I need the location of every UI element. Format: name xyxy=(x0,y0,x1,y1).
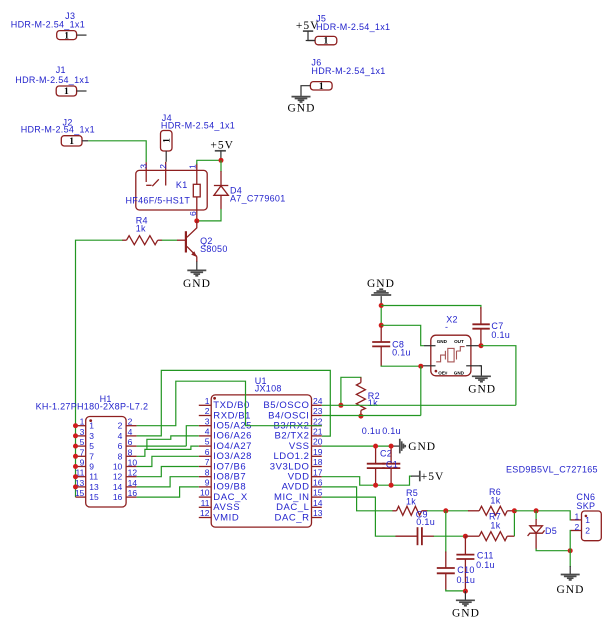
node D5 top junction xyxy=(534,508,539,513)
svg-text:OE#: OE# xyxy=(438,370,448,375)
svg-text:1k: 1k xyxy=(136,224,146,234)
wire H1.4 over-top to U1 B2/TX2 xyxy=(137,370,331,436)
svg-text:5: 5 xyxy=(89,441,94,451)
ground GND (top, above C8, inverted) xyxy=(367,278,395,304)
svg-text:8: 8 xyxy=(128,447,133,457)
node H1 pin 3 bus junction xyxy=(73,433,78,438)
wire GND drop (CN6) xyxy=(569,551,571,567)
svg-text:13: 13 xyxy=(313,508,323,518)
connector CN6 SKP xyxy=(571,492,602,541)
svg-text:KH-1.27PH180-2X8P-L7.2: KH-1.27PH180-2X8P-L7.2 xyxy=(36,402,149,412)
svg-text:-: - xyxy=(445,322,448,332)
svg-text:3: 3 xyxy=(89,431,94,441)
header J2 xyxy=(21,117,95,147)
svg-text:0.1u: 0.1u xyxy=(392,347,411,357)
K1 pin 6 xyxy=(196,197,198,221)
wire H1.16 to U1 IO9/B8 xyxy=(137,487,199,497)
node H1 pin 11 bus junction xyxy=(73,474,78,479)
wire C9 to R7 row xyxy=(434,535,467,537)
X2 pin GND (top-left) xyxy=(424,345,436,347)
wire D4 bottom to Q2 collector node xyxy=(197,209,221,221)
wire X2 OUT loop to B5/OSCO xyxy=(481,346,516,406)
H1 pin 11 xyxy=(76,476,86,478)
svg-text:0.1u: 0.1u xyxy=(457,575,476,585)
svg-text:2: 2 xyxy=(118,421,123,431)
wire GND to C7 top xyxy=(381,306,481,310)
wire R7 right up to R6 right xyxy=(513,511,515,536)
power +5V (J5) xyxy=(296,20,320,41)
svg-text:1k: 1k xyxy=(368,398,378,408)
K1 coil xyxy=(193,184,200,197)
svg-text:2: 2 xyxy=(158,164,168,169)
U1 pin 10 DAC_X xyxy=(199,496,211,498)
U1 pin 2 RXD/B1 xyxy=(199,415,211,417)
CN6 pin 1 xyxy=(571,519,582,521)
capacitor C9 0.1u xyxy=(396,510,436,546)
K1 switch blade xyxy=(152,179,159,186)
svg-text:6: 6 xyxy=(128,437,133,447)
node X2 OUT junction xyxy=(479,343,484,348)
wire R4 to Q2 base xyxy=(162,239,178,241)
node H1 pin 1 bus junction xyxy=(73,423,78,428)
svg-text:0.1u: 0.1u xyxy=(491,330,510,340)
svg-text:+5V: +5V xyxy=(210,140,234,152)
H1 pin 14 xyxy=(126,486,137,488)
svg-text:C1: C1 xyxy=(386,460,398,470)
power +5V (VDD) xyxy=(411,471,444,484)
K1 pin 1 xyxy=(196,164,198,185)
node R2 bottom / B4 wire junction xyxy=(358,414,363,419)
svg-text:9: 9 xyxy=(80,458,85,468)
U1 pin 24 B5/OSCO xyxy=(312,404,322,406)
H1 pin 1 xyxy=(76,425,86,427)
wire VDD to +5V rail xyxy=(322,476,412,485)
svg-text:12: 12 xyxy=(113,472,123,482)
svg-text:J1: J1 xyxy=(56,65,66,75)
resistor R6 1k xyxy=(468,487,514,515)
svg-text:0.1u: 0.1u xyxy=(382,426,401,436)
U1 pin 16 AVDD xyxy=(312,486,322,488)
svg-text:ESD9B5VL_C727165: ESD9B5VL_C727165 xyxy=(506,464,598,474)
node +5V/D4 junction xyxy=(219,158,224,163)
connector H1 KH-1.27PH180-2X8P-L7.2 xyxy=(36,394,149,507)
H1 pin 10 xyxy=(126,466,137,468)
H1 pin 13 xyxy=(76,486,86,488)
svg-text:S8050: S8050 xyxy=(200,244,228,254)
wire C10 bottom to GND node xyxy=(446,589,466,591)
H1 pin 9 xyxy=(76,466,86,468)
svg-text:GND: GND xyxy=(452,608,480,620)
svg-text:VMID: VMID xyxy=(213,512,239,523)
node GND/C8 junction xyxy=(379,323,384,328)
svg-text:18: 18 xyxy=(313,457,323,467)
svg-text:+5V: +5V xyxy=(296,20,320,32)
svg-text:1: 1 xyxy=(319,82,324,92)
svg-text:23: 23 xyxy=(313,406,323,416)
svg-text:24: 24 xyxy=(313,396,323,406)
svg-text:14: 14 xyxy=(128,478,138,488)
svg-text:A7_C779601: A7_C779601 xyxy=(230,194,286,204)
svg-text:OUT: OUT xyxy=(454,339,464,344)
svg-text:HDR-M-2.54_1x1: HDR-M-2.54_1x1 xyxy=(316,22,390,32)
H1 pin 15 xyxy=(76,496,86,498)
U1 pin 1 TXD/B0 xyxy=(199,404,211,406)
node C1 bottom junction xyxy=(389,483,394,488)
ground GND (X2) xyxy=(468,366,496,396)
svg-text:2: 2 xyxy=(585,525,590,535)
capacitor C10 0.1u xyxy=(437,552,475,591)
diode D5 (TVS) xyxy=(528,511,558,550)
node GND/C7 junction xyxy=(379,303,384,308)
U1 pin 12 VMID xyxy=(199,517,211,519)
svg-text:2: 2 xyxy=(128,417,133,427)
capacitor C1 0.1u xyxy=(382,426,401,485)
U1 pin 3 IO5/A25 xyxy=(199,425,211,427)
U1 pin 8 IO8/B7 xyxy=(199,476,211,478)
wire VSS row to GND xyxy=(322,445,393,447)
svg-text:1k: 1k xyxy=(406,497,416,507)
svg-text:+5V: +5V xyxy=(421,471,445,483)
node K1.6/D4/Q2 junction xyxy=(194,218,199,223)
svg-text:1: 1 xyxy=(324,37,329,47)
node X2 OE#/C8 junction xyxy=(418,364,423,369)
svg-text:HDR-M-2.54_1x1: HDR-M-2.54_1x1 xyxy=(161,120,235,130)
node R5/C10 junction xyxy=(443,508,448,513)
U1 pin 14 DAC_L xyxy=(312,506,322,508)
H1 pin 12 xyxy=(126,476,137,478)
svg-text:6: 6 xyxy=(118,441,123,451)
svg-text:10: 10 xyxy=(113,462,123,472)
ground GND (VSS, sideways) xyxy=(393,439,437,454)
svg-text:GND: GND xyxy=(367,278,395,290)
header J5 xyxy=(306,13,391,46)
wire B5/OSCO row xyxy=(322,404,516,406)
svg-text:17: 17 xyxy=(313,467,323,477)
wire branch to U1 IO6/A26 xyxy=(147,436,199,450)
svg-text:D5: D5 xyxy=(545,526,557,536)
svg-text:8: 8 xyxy=(205,467,210,477)
node H1 pin 5 bus junction xyxy=(73,444,78,449)
svg-text:16: 16 xyxy=(313,478,323,488)
resistor R5 1k xyxy=(393,488,428,515)
header J4 xyxy=(161,113,236,162)
X2 pin OE# (bottom-left) xyxy=(422,365,436,367)
wire H1 bus to R4 xyxy=(76,240,123,497)
svg-text:0.1u: 0.1u xyxy=(416,517,435,527)
node R6/R7 junction xyxy=(512,508,517,513)
svg-text:12: 12 xyxy=(128,468,138,478)
node C1 top junction xyxy=(389,444,394,449)
svg-text:19: 19 xyxy=(313,447,323,457)
svg-text:14: 14 xyxy=(113,482,123,492)
svg-text:6: 6 xyxy=(188,211,198,216)
K1 pin 2 xyxy=(165,162,167,186)
capacitor C8 0.1u xyxy=(372,327,411,367)
svg-text:13: 13 xyxy=(89,482,99,492)
K1 pin 3 xyxy=(145,162,147,182)
header J1 xyxy=(15,65,89,97)
svg-text:1: 1 xyxy=(188,164,198,169)
svg-text:11: 11 xyxy=(201,498,210,508)
resistor R2 1k xyxy=(341,377,380,416)
ground GND (Q2) xyxy=(183,262,211,290)
X2 crystal glyph xyxy=(436,347,464,362)
svg-text:GND: GND xyxy=(454,370,465,375)
wire B4/OSCI row xyxy=(322,415,421,417)
svg-text:4: 4 xyxy=(118,431,123,441)
svg-text:GND: GND xyxy=(468,384,496,396)
node C10/C11/GND junction xyxy=(463,589,468,594)
wire H1.6 row xyxy=(137,445,187,447)
U1 pin 17 VDD xyxy=(312,476,322,478)
svg-text:3: 3 xyxy=(139,164,149,169)
svg-text:16: 16 xyxy=(113,492,123,502)
resistor R4 1k xyxy=(122,216,162,245)
wire H1.2 over-top to U1 B3/RX2 xyxy=(137,381,322,426)
node H1 pin 7 bus junction xyxy=(73,454,78,459)
svg-text:4: 4 xyxy=(205,427,210,437)
node R2 top / B5 wire junction xyxy=(338,403,343,408)
svg-text:7: 7 xyxy=(80,447,85,457)
svg-text:GND: GND xyxy=(288,103,316,115)
diode D4 A7_C779601 xyxy=(214,171,286,209)
svg-text:GND: GND xyxy=(408,441,436,453)
wire +5V to K1 pin1 and D4 xyxy=(197,158,221,165)
H1 pin 4 xyxy=(126,435,137,437)
transistor Q2 S8050 xyxy=(177,221,228,263)
svg-text:22: 22 xyxy=(313,416,323,426)
U1 pin 7 IO7/B6 xyxy=(199,466,211,468)
svg-text:1: 1 xyxy=(205,396,210,406)
svg-text:1: 1 xyxy=(80,417,85,427)
svg-text:HDR-M-2.54_1x1: HDR-M-2.54_1x1 xyxy=(21,125,95,135)
svg-text:1: 1 xyxy=(64,87,69,97)
wire AVDD to R5 xyxy=(322,487,393,511)
node CN6.2/D5/GND junction xyxy=(568,548,573,553)
svg-text:14: 14 xyxy=(313,498,323,508)
IC U1 JX108 xyxy=(199,376,323,527)
node C2 top junction xyxy=(373,444,378,449)
oscillator X2 xyxy=(422,315,482,376)
H1 pin 2 xyxy=(126,425,137,427)
svg-text:GND: GND xyxy=(183,278,211,290)
svg-text:12: 12 xyxy=(200,508,210,518)
svg-text:9: 9 xyxy=(89,462,94,472)
wire D4 top lead xyxy=(220,160,222,172)
wire C10 drop xyxy=(445,511,447,553)
svg-text:10: 10 xyxy=(128,458,138,468)
U1 pin 6 IO3/A28 xyxy=(199,455,211,457)
U1 pin 21 B2/TX2 xyxy=(312,435,322,437)
svg-text:9: 9 xyxy=(205,478,210,488)
wire H1.12 to U1 IO7/B6 xyxy=(137,467,199,477)
H1 pin 16 xyxy=(126,496,137,498)
U1 pin 4 IO6/A26 xyxy=(199,435,211,437)
svg-text:1k: 1k xyxy=(490,521,500,531)
svg-text:1: 1 xyxy=(69,137,74,147)
svg-text:1: 1 xyxy=(64,31,69,41)
svg-text:7: 7 xyxy=(89,451,94,461)
relay K1 HF46F/5-HS1T xyxy=(126,162,208,221)
node C9/C11/R7 junction xyxy=(463,534,468,539)
U1 pin 22 B3/RX2 xyxy=(312,425,322,427)
svg-text:JX108: JX108 xyxy=(255,384,282,394)
svg-text:3: 3 xyxy=(80,427,85,437)
U1 pin 9 IO9/B8 xyxy=(199,486,211,488)
wire J2 to K1 pin3 xyxy=(88,141,146,162)
wire CN6 pin2 drop xyxy=(570,531,571,551)
X2 pin OUT (top-right) xyxy=(466,345,479,347)
svg-text:5: 5 xyxy=(205,437,210,447)
svg-text:GND: GND xyxy=(437,339,448,344)
svg-text:2: 2 xyxy=(205,406,210,416)
svg-text:4: 4 xyxy=(128,427,133,437)
U1 pin 5 IO4/A27 xyxy=(199,445,211,447)
ground GND (C10/C11) xyxy=(452,591,480,619)
svg-text:0.1u: 0.1u xyxy=(362,426,381,436)
wire OE# node down to B4/OSCI xyxy=(420,366,422,415)
power +5V (K1/D4) xyxy=(210,140,234,159)
ground GND (J6) xyxy=(288,97,316,115)
U1 pin 20 VSS xyxy=(312,445,322,447)
svg-text:5: 5 xyxy=(80,437,85,447)
svg-text:3: 3 xyxy=(205,416,210,426)
X2 pin GND (bottom-right) xyxy=(466,365,481,367)
H1 pin 6 xyxy=(126,445,137,447)
svg-text:HDR-M-2.54_1x1: HDR-M-2.54_1x1 xyxy=(11,20,85,30)
svg-text:0.1u: 0.1u xyxy=(476,560,495,570)
svg-text:15: 15 xyxy=(313,488,323,498)
U1 pin 18 3V3LDO xyxy=(312,466,322,468)
svg-text:11: 11 xyxy=(89,472,98,482)
svg-text:C11: C11 xyxy=(477,550,494,560)
svg-text:10: 10 xyxy=(200,488,210,498)
wire U1 IO5/A25 drop xyxy=(186,426,199,446)
wire GND node to X2 GND pin xyxy=(381,325,424,345)
svg-text:HDR-M-2.54_1x1: HDR-M-2.54_1x1 xyxy=(311,66,385,76)
H1 pin 3 xyxy=(76,435,86,437)
svg-text:2: 2 xyxy=(575,522,580,532)
wire D5 bottom to GND node xyxy=(536,549,570,551)
ground GND (CN6) xyxy=(557,566,585,596)
svg-text:SKP: SKP xyxy=(576,501,595,511)
capacitor C7 0.1u xyxy=(472,307,510,346)
svg-text:GND: GND xyxy=(557,584,585,596)
svg-text:6: 6 xyxy=(205,447,210,457)
svg-text:15: 15 xyxy=(89,492,99,502)
capacitor C11 0.1u xyxy=(456,536,494,591)
svg-text:1k: 1k xyxy=(490,495,500,505)
svg-text:21: 21 xyxy=(313,427,323,437)
svg-text:1: 1 xyxy=(585,515,590,525)
wire C8 bottom to X2 OE# xyxy=(381,365,421,368)
svg-text:15: 15 xyxy=(75,488,85,498)
header J3 xyxy=(11,11,87,42)
wire H1.10 to U1 IO3/A28 xyxy=(137,456,199,466)
U1 pin 23 B4/OSCI xyxy=(312,415,322,417)
svg-text:DAC_R: DAC_R xyxy=(275,512,310,523)
node H1 pin 13 bus junction xyxy=(73,484,78,489)
H1 pin 5 xyxy=(76,445,86,447)
wire H1.14 to U1 IO8/B7 xyxy=(137,477,199,487)
CN6 pin 2 xyxy=(571,530,582,532)
capacitor C2 0.1u xyxy=(362,426,392,485)
svg-text:20: 20 xyxy=(313,437,323,447)
node C2 bottom junction xyxy=(373,483,378,488)
node H1 pin 9 bus junction xyxy=(73,464,78,469)
svg-text:HDR-M-2.54_1x1: HDR-M-2.54_1x1 xyxy=(15,75,89,85)
U1 pin 13 DAC_R xyxy=(312,517,322,519)
svg-text:7: 7 xyxy=(205,457,210,467)
wire MIC_IN to C9 xyxy=(322,497,396,536)
header J6 xyxy=(301,58,386,96)
svg-text:1: 1 xyxy=(89,421,94,431)
wire R5 to R6 row xyxy=(427,510,469,512)
wire R6 row to CN6 pin1 xyxy=(514,511,571,520)
svg-text:C2: C2 xyxy=(380,449,392,459)
svg-text:1: 1 xyxy=(575,511,580,521)
svg-text:K1: K1 xyxy=(176,180,188,190)
H1 pin 7 xyxy=(76,455,86,457)
wire H1.8 to U1 IO4/A27 xyxy=(137,446,199,456)
svg-text:HF46F/5-HS1T: HF46F/5-HS1T xyxy=(126,195,191,205)
svg-text:8: 8 xyxy=(118,451,123,461)
U1 pin 19 LDO1.2 xyxy=(312,455,322,457)
wire GND node down xyxy=(380,303,382,325)
U1 pin 15 MIC_IN xyxy=(312,496,322,498)
H1 pin 8 xyxy=(126,455,137,457)
svg-text:16: 16 xyxy=(128,488,138,498)
svg-text:C10: C10 xyxy=(457,565,474,575)
resistor R7 1k xyxy=(466,511,514,540)
U1 pin 11 AVSS xyxy=(199,506,211,508)
svg-text:1: 1 xyxy=(162,138,172,143)
